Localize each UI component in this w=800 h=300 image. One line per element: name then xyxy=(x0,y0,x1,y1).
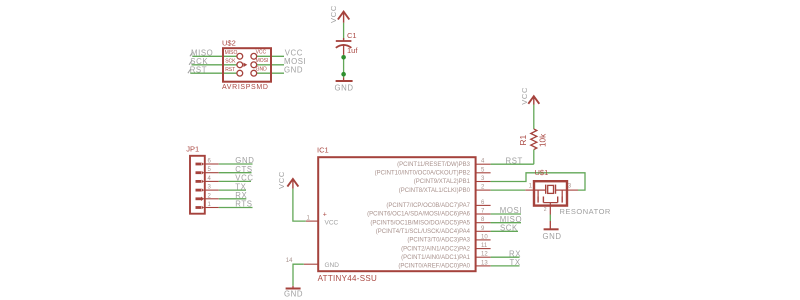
svg-text:U$1: U$1 xyxy=(535,168,549,177)
svg-text:14: 14 xyxy=(286,258,293,264)
svg-text:(PCINT3/T0/ADC3)PA3: (PCINT3/T0/ADC3)PA3 xyxy=(407,238,470,244)
pin 6 lead xyxy=(205,163,218,165)
pin 11 PA2 lead xyxy=(476,248,491,250)
svg-text:(PCINT1/AIN0/ADC1)PA1: (PCINT1/AIN0/ADC1)PA1 xyxy=(401,255,471,261)
JP1 body box xyxy=(190,156,205,214)
svg-text:JP1: JP1 xyxy=(186,145,199,154)
wire net CTS xyxy=(219,172,252,174)
svg-text:VCC: VCC xyxy=(256,50,267,56)
capacitor C1 xyxy=(343,38,345,41)
svg-text:RST: RST xyxy=(506,156,523,165)
svg-text:GND: GND xyxy=(256,67,268,73)
VCC symbol right xyxy=(533,97,535,105)
svg-text:MISO: MISO xyxy=(225,50,238,56)
pad 3 SCK xyxy=(237,62,243,68)
wire pin2 to GND xyxy=(549,215,551,222)
wire VCC to C1 xyxy=(343,23,345,40)
pin 2 lead xyxy=(205,198,218,200)
svg-text:VCC: VCC xyxy=(329,5,338,23)
svg-text:GND: GND xyxy=(284,66,303,75)
wire C1 to GND xyxy=(343,55,345,78)
svg-text:(PCINT4/T1/SCL/USCK/ADC4)PA4: (PCINT4/T1/SCL/USCK/ADC4)PA4 xyxy=(376,229,471,235)
svg-text:C1: C1 xyxy=(347,31,357,40)
resistor R1 branch xyxy=(518,87,547,164)
wire pad to net VCC xyxy=(257,55,284,57)
pin 1 lead xyxy=(525,189,534,191)
svg-text:GND: GND xyxy=(284,290,303,299)
pin 14 GND lead xyxy=(304,263,318,265)
svg-text:GND: GND xyxy=(543,232,562,241)
svg-text:SCK: SCK xyxy=(500,224,518,233)
label origin tick SCK xyxy=(189,61,192,65)
pin 12 PA1 lead xyxy=(476,256,491,258)
label origin tick RST xyxy=(188,69,191,73)
pin 5 bar xyxy=(196,171,202,174)
wire net RX pin12 xyxy=(491,256,520,258)
pin 10 PA3 lead xyxy=(476,239,491,241)
svg-text:TX: TX xyxy=(235,182,246,191)
ground symbol xyxy=(343,78,345,82)
pin 9 PA4 lead xyxy=(476,230,491,232)
svg-text:(PCINT6/OC1A/SDA/MOSI/ADC6)PA6: (PCINT6/OC1A/SDA/MOSI/ADC6)PA6 xyxy=(367,212,471,218)
svg-text:(PCINT11/RESET/DW)PB3: (PCINT11/RESET/DW)PB3 xyxy=(397,162,471,168)
svg-text:U$2: U$2 xyxy=(222,39,236,48)
pin 5 PB2 lead xyxy=(476,172,491,174)
wire net RST pin4 xyxy=(491,163,534,165)
svg-text:10: 10 xyxy=(481,234,488,240)
svg-text:TX: TX xyxy=(510,258,521,267)
wire pin1 to VCC xyxy=(293,189,306,222)
svg-text:R1: R1 xyxy=(518,134,528,145)
crystal plate left xyxy=(545,185,547,194)
svg-text:(PCINT9/XTAL2)PB1: (PCINT9/XTAL2)PB1 xyxy=(414,179,471,185)
ground symbol resonator xyxy=(549,221,551,229)
wire VCC to R1 xyxy=(533,105,535,130)
svg-text:(PCINT10/INT0/OC0A/CKOUT)PB2: (PCINT10/INT0/OC0A/CKOUT)PB2 xyxy=(375,171,471,177)
svg-text:AVRISPSMD: AVRISPSMD xyxy=(222,84,269,91)
cap right plates xyxy=(557,197,559,203)
crystal lead left xyxy=(534,189,546,191)
svg-text:RX: RX xyxy=(509,249,521,258)
capacitor C1 branch xyxy=(329,5,358,92)
pad 5 RST xyxy=(237,70,243,76)
wire net TX xyxy=(219,189,246,191)
wire pad to net GND xyxy=(257,72,284,74)
pin 1 VCC lead xyxy=(306,220,318,222)
pin 3 bar xyxy=(196,189,202,192)
wire pin3 to resonator pin3 xyxy=(491,173,585,190)
svg-text:VCC: VCC xyxy=(520,87,529,105)
pin 2 bar xyxy=(196,197,202,200)
pin 8 PA5 lead xyxy=(476,222,491,224)
wire pad to net MOSI xyxy=(257,64,284,66)
VCC symbol top xyxy=(343,13,345,23)
wire net SCK pin9 xyxy=(491,230,518,232)
pin 4 bar xyxy=(196,180,202,183)
wire net MOSI pin7 xyxy=(491,213,521,215)
wire net TX pin13 xyxy=(491,265,520,267)
wire net MISO to pad xyxy=(192,55,237,57)
pin 7 PA6 lead xyxy=(476,213,491,215)
svg-text:+: + xyxy=(323,212,327,219)
svg-text:CTS: CTS xyxy=(235,165,252,174)
svg-text:GND: GND xyxy=(325,262,340,269)
svg-text:SCK: SCK xyxy=(225,59,236,65)
pad arrow mark xyxy=(244,63,248,67)
svg-text:ATTINY44-SSU: ATTINY44-SSU xyxy=(318,274,377,283)
svg-text:2: 2 xyxy=(544,207,547,213)
pin 2 PB0 lead xyxy=(476,189,491,191)
svg-text:MOSI: MOSI xyxy=(256,58,269,64)
pin 1 bar xyxy=(196,206,202,209)
U$1 body box xyxy=(534,181,567,205)
resistor R1 zigzag xyxy=(531,129,537,150)
crystal lead right xyxy=(556,189,567,191)
svg-text:GND: GND xyxy=(235,156,254,165)
pin 3 lead xyxy=(205,189,218,191)
svg-text:11: 11 xyxy=(481,243,488,249)
svg-text:VCC: VCC xyxy=(235,174,253,183)
pad 6 GND xyxy=(251,70,257,76)
cap left plates xyxy=(537,197,539,203)
cap drop right xyxy=(561,190,563,196)
svg-text:12: 12 xyxy=(481,252,488,258)
pad 2 VCC xyxy=(251,53,257,59)
IC1 ATTINY44-SSU xyxy=(277,146,585,299)
pin 4 lead xyxy=(205,180,218,182)
pin 3 lead xyxy=(567,189,578,191)
crystal plate right xyxy=(555,185,557,194)
pin 3 PB1 lead xyxy=(476,181,491,183)
wire net RTS xyxy=(219,207,253,209)
svg-text:RST: RST xyxy=(190,65,207,74)
pin 1 lead xyxy=(205,207,218,209)
svg-text:10k: 10k xyxy=(538,133,547,147)
pin 6 bar xyxy=(196,163,202,166)
svg-text:GND: GND xyxy=(335,84,354,93)
resonator U$1 xyxy=(525,168,611,241)
svg-text:(PCINT8/XTAL1/CLKI)PB0: (PCINT8/XTAL1/CLKI)PB0 xyxy=(399,188,471,194)
cap drop left xyxy=(537,190,539,196)
label origin tick MISO xyxy=(190,52,193,56)
svg-text:VCC: VCC xyxy=(325,220,339,227)
pin 5 lead xyxy=(205,172,218,174)
wire pin14 to GND xyxy=(293,264,304,286)
IC1 body box xyxy=(318,157,475,271)
svg-text:RESONATOR: RESONATOR xyxy=(560,207,611,216)
svg-text:13: 13 xyxy=(481,260,488,266)
svg-text:(PCINT5/OC1B/MISO/DO/ADC5)PA5: (PCINT5/OC1B/MISO/DO/ADC5)PA5 xyxy=(370,220,470,226)
pin 4 PB3 lead xyxy=(476,163,491,165)
wire pin2 to resonator pin1 xyxy=(491,189,526,191)
svg-text:VCC: VCC xyxy=(277,171,286,189)
wire net GND xyxy=(219,163,253,165)
wire net MISO pin8 xyxy=(491,222,521,224)
pad 1 MISO xyxy=(237,53,243,59)
svg-text:(PCINT2/AIN1/ADC2)PA2: (PCINT2/AIN1/ADC2)PA2 xyxy=(401,246,471,252)
wire net VCC xyxy=(219,180,251,182)
wire R1 to RST xyxy=(533,150,535,165)
svg-text:RST: RST xyxy=(225,67,235,73)
crystal body xyxy=(548,185,554,193)
pad 4 MOSI xyxy=(251,62,257,68)
svg-text:(PCINT7/ICP/OC0B/ADC7)PA7: (PCINT7/ICP/OC0B/ADC7)PA7 xyxy=(386,203,470,209)
svg-text:MOSI: MOSI xyxy=(500,206,522,215)
wire net RST to pad xyxy=(190,72,237,74)
svg-text:IC1: IC1 xyxy=(317,146,329,155)
wire net RX xyxy=(219,198,247,200)
svg-text:(PCINT0/AREF/ADC0)PA0: (PCINT0/AREF/ADC0)PA0 xyxy=(398,264,470,270)
svg-text:1uf: 1uf xyxy=(347,46,358,55)
pin 6 PA7 lead xyxy=(476,204,491,206)
svg-text:RTS: RTS xyxy=(235,200,252,209)
connector U$2 AVRISPSMD xyxy=(188,39,306,92)
junction dot xyxy=(341,72,346,77)
ground symbol left xyxy=(292,286,294,289)
cap mid link xyxy=(543,202,557,204)
pin 13 PA0 lead xyxy=(476,265,491,267)
svg-text:RX: RX xyxy=(235,191,247,200)
wire net SCK to pad xyxy=(192,64,238,66)
connector JP1 xyxy=(186,145,254,214)
U$2 body box xyxy=(223,48,271,81)
pin 2 lead down xyxy=(549,203,551,215)
VCC symbol left xyxy=(292,180,294,189)
junction dot xyxy=(341,55,346,60)
svg-text:MOSI: MOSI xyxy=(284,57,306,66)
